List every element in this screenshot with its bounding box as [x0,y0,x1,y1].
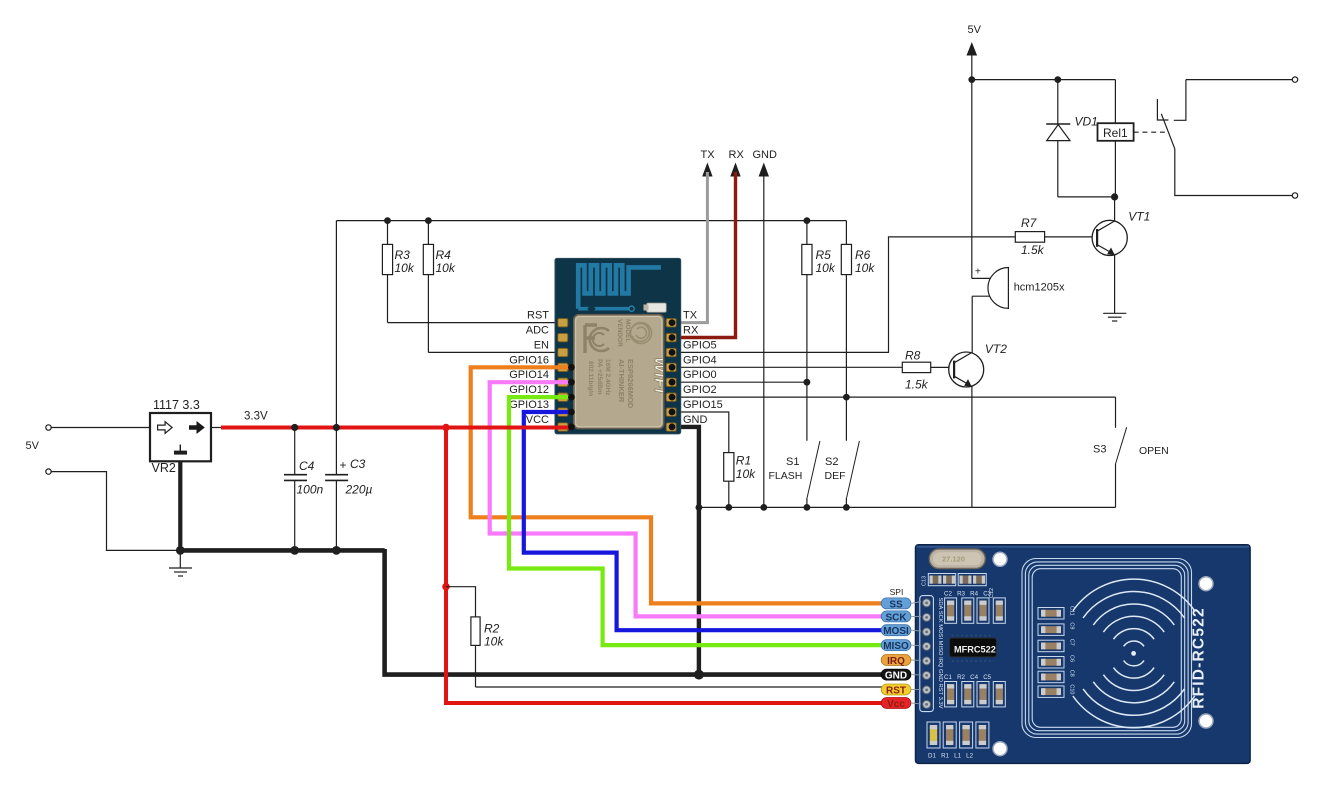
junction rail / S1 [804,504,811,511]
svg-text:GPIO5: GPIO5 [683,339,717,351]
svg-text:C7: C7 [1069,639,1075,646]
ESP shield text MODEL/VENDOR [616,319,631,347]
svg-text:AI-THINKER: AI-THINKER [617,359,626,403]
svg-text:VT2: VT2 [985,342,1007,356]
svg-text:TX: TX [701,149,716,161]
ESP antenna meander trace [578,265,661,308]
mounting hole bottom left [993,742,1007,756]
svg-text:C10: C10 [1069,684,1075,694]
svg-text:5V: 5V [26,440,40,452]
terminal 5V input bottom [46,469,180,551]
svg-text:GPIO13: GPIO13 [509,399,549,411]
svg-text:R3: R3 [395,248,411,262]
wire 5V down to rail [971,53,973,80]
ESP-12 module U1 board [555,258,681,434]
pin box GND [881,669,911,680]
svg-text:VCC: VCC [526,414,549,426]
relay coil Rel1 [1098,80,1134,197]
wire GPIO16 to RFID SS (orange) [471,367,883,603]
RX arrow head [730,163,740,177]
svg-text:VT1: VT1 [1128,210,1150,224]
ESP shield swirl logo [631,323,652,344]
svg-text:1117 3.3: 1117 3.3 [153,398,200,412]
svg-text:ESP8266MOD: ESP8266MOD [626,359,635,409]
GND arrow head [759,163,769,177]
diode VD1 [1046,80,1098,197]
junction red / red drop [442,424,450,432]
wire R3 to RST pin [388,322,559,324]
svg-text:GPIO0: GPIO0 [683,369,717,381]
svg-text:C4: C4 [299,459,315,473]
junction R5 top rail [804,217,811,224]
svg-text:GND: GND [683,414,708,426]
crystal Y1 27.120 [929,549,985,568]
svg-text:DEF: DEF [825,470,846,482]
svg-text:+: + [340,458,347,472]
svg-text:VENDOR: VENDOR [616,319,623,347]
wire regulator output [211,427,223,429]
svg-text:R7: R7 [1021,216,1038,230]
RFID header outline + pads [920,596,934,712]
wire GPIO12 to RFID MISO (green) [509,397,883,645]
svg-text:C6: C6 [1069,655,1075,662]
junction R3 top [384,217,391,224]
ground symbol under VR2 [169,550,192,576]
svg-text:hcm1205x: hcm1205x [1014,282,1065,294]
RFID-RC522 module board [916,545,1251,764]
wire VD1 bottom to collector junction [1058,196,1115,198]
RFID antenna ripple arcs [1073,579,1195,728]
resistor R4 10k [423,221,456,353]
bottom switch rail [699,506,1116,508]
mounting hole bottom right [1199,714,1213,728]
ESP right pads [666,319,676,432]
SMD cluster C13 [922,574,956,587]
svg-text:C8: C8 [1069,670,1075,677]
pin box MOSI [881,625,911,636]
svg-text:C11: C11 [1069,606,1075,616]
buzzer hcm1205x [972,267,1065,309]
resistor R6 10k [841,221,875,441]
svg-text:R6: R6 [855,248,871,262]
terminal relay top [1292,77,1297,82]
wire gnd rail down & right to RFID GND (thick) [385,549,883,675]
dashed relay link [1134,131,1165,133]
svg-text:10k: 10k [855,261,875,275]
wire GND arrow down to switch rail [763,172,765,507]
relay contact fixed end [1157,99,1168,120]
ESP small SMD part top right [647,303,667,312]
wire top rail down-link at x=336 [335,221,337,428]
wire R7 to VT1 base [1045,236,1097,238]
ground under VT1 [1103,313,1126,321]
svg-text:RST: RST [527,310,549,322]
junction rail / GND arrow line [760,504,767,511]
svg-text:5V: 5V [968,24,982,36]
svg-text:SCK: SCK [885,612,907,623]
junction rail / ESP GND [696,504,703,511]
svg-text:27.120: 27.120 [942,555,965,564]
svg-text:RST: RST [886,685,906,696]
junction VD1 top [1054,76,1061,83]
SMD row C2 R3 R4 C3 [945,598,1006,623]
junction red / R2 tap [442,583,450,591]
resistor R1 10k [724,453,756,508]
wire S1 lower lead [806,498,808,508]
wire GPIO14 to RFID SCK (pink) [490,382,883,616]
relay contact (upper feed) [1174,80,1186,121]
capacitor C4 [284,428,324,551]
svg-text:+: + [975,267,981,278]
wire GPIO0 to R5 [672,381,807,383]
svg-text:SPI: SPI [890,587,904,597]
svg-text:MOSI: MOSI [883,626,909,637]
ESP left pads [558,319,568,432]
svg-text:Vcc: Vcc [887,699,905,710]
SMD bottom row D1 R1 L1 L2 [927,722,989,760]
svg-text:1.5k: 1.5k [905,378,929,392]
svg-text:16M 2.4GHz: 16M 2.4GHz [604,359,611,396]
svg-text:RFID-RC522: RFID-RC522 [1191,607,1208,709]
svg-text:GPIO4: GPIO4 [683,354,717,366]
wire R4 to EN pin [428,351,558,353]
svg-text:802.11b/g/n: 802.11b/g/n [587,361,594,396]
svg-text:MODEL: MODEL [624,319,631,343]
wire contact upper lead [1186,79,1292,81]
resistor R5 10k [802,221,836,441]
SMD row C1 R2 C4 C5 [945,682,1006,707]
terminal 5V input top [46,425,150,430]
svg-text:100n: 100n [297,483,324,497]
mounting hole top right [1199,577,1213,591]
svg-text:MFRC522: MFRC522 [954,644,996,654]
capacitor C3 (electrolytic) [325,428,372,551]
svg-text:D1 R1 L1 L2: D1 R1 L1 L2 [928,753,974,760]
svg-text:1.5k: 1.5k [1021,243,1045,257]
wire GPIO13 to RFID MOSI (blue) [524,412,883,630]
junction C4 gnd [290,546,299,555]
resistor R3 10k [382,221,414,323]
svg-text:S2: S2 [825,456,838,468]
wire 5V top terminal to regulator input [51,427,150,429]
svg-text:GPIO14: GPIO14 [509,369,549,381]
ESP shield FCC logo [585,325,609,353]
transistor VT2 [949,342,1008,507]
wire 3.3V rail (red) [221,426,572,430]
GND rail (thick) [180,548,384,553]
ESP right pin junction dots [669,319,676,430]
junction red / C3 [333,424,340,431]
RFID antenna coil traces [1022,559,1192,738]
svg-text:OPEN: OPEN [1139,445,1169,457]
junction C3 gnd [332,546,341,555]
svg-text:R2: R2 [484,622,500,636]
pin box RST [881,684,911,695]
wire ESP GND down (thick) [672,427,699,675]
svg-text:GND: GND [885,671,907,682]
junction 5V arrow [968,76,975,83]
svg-text:3.3V: 3.3V [244,411,268,423]
svg-text:GPIO15: GPIO15 [683,399,723,411]
connector leads boxes to pads [911,602,921,704]
junction VT1 collector [1111,193,1118,200]
wire buzzer to VT2 collector [971,296,973,353]
RFID antenna center dot [1131,651,1136,656]
svg-text:R8: R8 [905,348,921,362]
svg-text:GPIO2: GPIO2 [683,384,717,396]
svg-text:R1: R1 [736,454,751,468]
svg-text:FLASH: FLASH [769,470,803,482]
svg-text:SDA SCK MOSI MISO IRQ GND RST: SDA SCK MOSI MISO IRQ GND RST 3.3V [937,598,943,709]
pin box Vcc [881,698,911,709]
SMD right column C11..C10 [1038,606,1075,697]
svg-text:RX: RX [729,149,745,161]
svg-text:VR2: VR2 [152,461,176,475]
resistor R7 1.5k [1015,216,1044,257]
svg-text:MISO: MISO [883,641,909,652]
svg-text:C1 R2 C4 C5: C1 R2 C4 C5 [944,674,992,681]
svg-text:TX: TX [683,310,698,322]
svg-text:10k: 10k [816,261,836,275]
wire R2 top tap [446,587,476,617]
chip MFRC522 [950,636,997,662]
svg-text:PA +25dBm: PA +25dBm [596,359,603,395]
ESP shield text ESP8266MOD / AI-THINKER [587,359,635,409]
terminal relay bottom [1292,193,1297,198]
switch S1 FLASH blade [807,441,820,498]
svg-text:10k: 10k [736,467,756,481]
wire RX (dark red) [672,172,736,338]
pin box IRQ [881,655,911,666]
SMD cluster C12 [958,574,995,599]
ESP left pin junction dots [568,364,575,430]
pin box SCK [881,611,911,622]
svg-text:C2 R3 R4 C3: C2 R3 R4 C3 [944,591,992,598]
wire regulator ground (thick) [178,461,182,550]
svg-text:GPIO16: GPIO16 [509,354,549,366]
svg-text:VD1: VD1 [1075,115,1098,129]
svg-text:10k: 10k [484,635,504,649]
junction R4 top [425,217,432,224]
svg-text:Rel1: Rel1 [1103,126,1128,140]
5V top rail [972,79,1116,81]
mounting hole top left [993,552,1007,566]
svg-text:S1: S1 [786,456,799,468]
svg-text:C9: C9 [1069,622,1075,629]
junction GPIO0 / R5 [804,379,811,386]
svg-text:R5: R5 [816,248,832,262]
svg-text:220µ: 220µ [345,483,373,497]
svg-text:C13: C13 [922,576,928,586]
svg-text:C3: C3 [350,457,366,471]
TX arrow head [702,163,712,177]
junction GPIO2 / R6 [843,394,850,401]
svg-text:S3: S3 [1093,443,1106,455]
svg-text:10k: 10k [436,261,456,275]
wire GPIO5 to R7 [672,237,1015,353]
svg-text:10k: 10k [395,261,415,275]
relay contact blade [1161,114,1175,149]
resistor R2 10k [471,617,504,687]
pin box SS [881,598,911,609]
wire S2 lower lead [845,498,847,508]
switch S3 OPEN [1093,397,1169,507]
svg-text:GND: GND [753,149,778,161]
wire TX (gray) [672,172,707,323]
resistor R8 1.5k [902,348,930,391]
junction red / C4 [291,424,298,431]
wire 3.3V down to RFID Vcc (red) [446,428,883,704]
junction rail / R1 [725,504,732,511]
svg-text:SS: SS [889,599,903,610]
junction ESP GND / bottom gnd wire [694,670,704,680]
svg-text:EN: EN [534,339,549,351]
ESP metal shield [574,315,664,429]
pin box MISO [881,640,911,651]
svg-text:GPIO12: GPIO12 [509,384,549,396]
switch S2 DEF blade [847,441,860,498]
wire GPIO15 to R1 [672,412,729,453]
svg-text:ADC: ADC [526,325,549,337]
RFID header pin boxes [881,587,911,710]
transistor VT1 [1092,197,1150,313]
svg-text:RX: RX [683,325,699,337]
ESP antenna trace markers [587,304,595,312]
wire bottom terminal to ground rail [51,472,180,551]
wire GPIO2 to S3 [672,396,1116,398]
junction rail / S2 [843,504,850,511]
regulator VR2 1117 3.3 [150,398,211,475]
wire GPIO4 to R8 [672,366,902,368]
svg-text:R4: R4 [436,248,452,262]
wire R8 to VT2 base [931,366,954,368]
wire R2 to RFID RST [476,686,884,688]
svg-text:IRQ: IRQ [887,656,905,667]
junction regulator gnd [176,546,185,555]
top pull-up rail [336,220,846,222]
wire 5V rail down to buzzer + [971,80,973,279]
wire contact lower lead [1175,149,1292,196]
5V arrow [967,42,978,56]
